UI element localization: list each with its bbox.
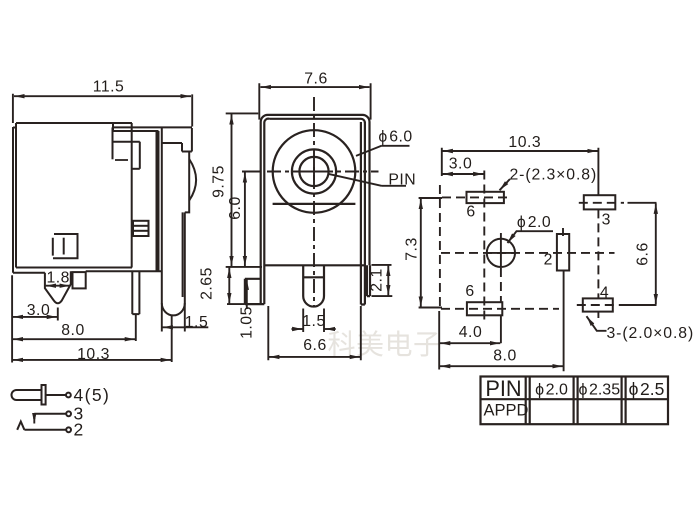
svg-text:1.05: 1.05: [238, 306, 255, 339]
svg-text:6: 6: [466, 204, 475, 221]
svg-text:ϕ2.0: ϕ2.0: [535, 382, 568, 399]
svg-text:8.0: 8.0: [61, 322, 84, 339]
svg-text:2: 2: [74, 419, 85, 439]
svg-text:科美电子: 科美电子: [328, 329, 442, 360]
svg-text:10.3: 10.3: [77, 346, 110, 363]
svg-text:6: 6: [465, 283, 474, 300]
svg-text:APPD: APPD: [484, 402, 529, 420]
svg-text:1.5: 1.5: [185, 314, 208, 331]
svg-text:ϕ2.35: ϕ2.35: [578, 382, 620, 399]
svg-text:ϕ6.0: ϕ6.0: [378, 128, 412, 145]
svg-text:2-(2.3×0.8): 2-(2.3×0.8): [510, 167, 598, 184]
svg-text:2: 2: [544, 251, 553, 268]
svg-text:3: 3: [602, 212, 611, 229]
svg-text:4: 4: [600, 284, 609, 301]
svg-text:PIN: PIN: [485, 376, 521, 401]
svg-text:PIN: PIN: [388, 172, 416, 189]
svg-text:7.6: 7.6: [304, 71, 327, 88]
svg-text:3-(2.0×0.8): 3-(2.0×0.8): [607, 325, 695, 342]
svg-text:2.65: 2.65: [198, 267, 215, 300]
svg-text:8.0: 8.0: [493, 347, 516, 364]
svg-text:3.0: 3.0: [449, 156, 472, 173]
svg-text:4.0: 4.0: [459, 324, 482, 341]
svg-text:7.3: 7.3: [404, 237, 421, 260]
svg-text:4(5): 4(5): [74, 385, 111, 405]
svg-text:9.75: 9.75: [210, 165, 227, 198]
svg-text:1.5: 1.5: [302, 313, 325, 330]
svg-text:ϕ2.5: ϕ2.5: [629, 379, 665, 399]
svg-text:ϕ2.0: ϕ2.0: [517, 214, 551, 231]
svg-text:6.0: 6.0: [227, 196, 244, 219]
svg-text:6.6: 6.6: [303, 337, 326, 354]
svg-text:2.1: 2.1: [369, 268, 386, 291]
svg-text:11.5: 11.5: [93, 79, 125, 96]
svg-text:3.0: 3.0: [27, 302, 50, 319]
svg-text:10.3: 10.3: [508, 134, 541, 151]
svg-text:6.6: 6.6: [635, 242, 652, 265]
svg-text:1.8: 1.8: [46, 270, 69, 287]
